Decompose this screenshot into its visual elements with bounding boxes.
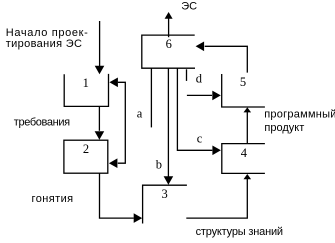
svg-text:d: d bbox=[196, 72, 203, 86]
svg-text:структуры знаний: структуры знаний bbox=[196, 226, 283, 238]
wire start arrow down into box 1 bbox=[99, 21, 101, 67]
wire d stub below box6 bbox=[186, 69, 188, 81]
box 3 (top and left edges) bbox=[143, 185, 187, 223]
box 1 (open top) bbox=[64, 74, 108, 107]
wire box3 to box4 bottom bbox=[186, 179, 247, 218]
svg-text:3: 3 bbox=[161, 187, 167, 201]
wire c box6 to box4 bbox=[177, 68, 212, 150]
wire box4 to box5 bbox=[246, 112, 248, 144]
box 2 bbox=[64, 140, 108, 173]
box 5 (left and bottom edges) bbox=[222, 74, 265, 107]
svg-text:программный: программный bbox=[264, 109, 335, 121]
svg-text:6: 6 bbox=[166, 37, 172, 51]
svg-text:продукт: продукт bbox=[264, 122, 304, 134]
svg-text:4: 4 bbox=[241, 146, 248, 160]
svg-text:требования: требования bbox=[14, 116, 70, 128]
wire box2 to box3 bbox=[100, 173, 134, 218]
svg-text:2: 2 bbox=[83, 142, 89, 156]
svg-text:тирования ЭС: тирования ЭС bbox=[6, 38, 83, 50]
box 6 (open right) bbox=[142, 35, 195, 68]
svg-text:1: 1 bbox=[83, 76, 89, 90]
wire b box6 to box3 bbox=[167, 68, 169, 177]
svg-text:c: c bbox=[197, 132, 203, 146]
svg-text:a: a bbox=[137, 106, 143, 120]
wire a short from box6 bbox=[150, 68, 152, 127]
svg-text:ЭС: ЭС bbox=[181, 0, 197, 12]
wire box1 to box2 bbox=[98, 106, 100, 130]
wire into box5 left bbox=[187, 94, 212, 96]
svg-text:гонятия: гонятия bbox=[32, 193, 74, 205]
wire box5 top to box6 bbox=[205, 46, 248, 72]
svg-text:b: b bbox=[156, 158, 162, 172]
svg-text:5: 5 bbox=[240, 75, 246, 89]
box 4 (open right) bbox=[222, 144, 265, 174]
wire arrow up to ЭС bbox=[168, 19, 170, 38]
wire feedback a: arrows into box1 and box2 right edges bbox=[118, 82, 126, 163]
